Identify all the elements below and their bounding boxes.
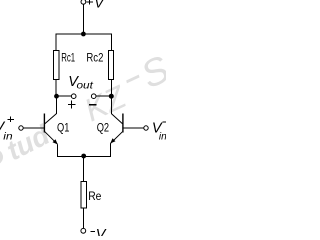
wire: Q1 base lead [23, 127, 44, 129]
junction dot emitters [81, 154, 86, 159]
label -V minus [90, 231, 95, 233]
junction dot Vout left [54, 94, 59, 99]
svg-text:Q2: Q2 [97, 123, 109, 135]
resistor Rc1 [54, 51, 59, 80]
label +V plus [87, 0, 93, 5]
wire: Q2 base lead [123, 127, 144, 129]
transistor Q1 [44, 114, 57, 145]
wire: right branch upper [111, 34, 113, 51]
terminal Vin- (right input) [144, 126, 148, 130]
wire: left branch Vout node to collector [55, 96, 57, 114]
Q1 emitter arrowhead [53, 139, 58, 144]
polarity minus (output) [89, 104, 97, 106]
wire: Q2 emitter drop [109, 144, 111, 157]
terminal +V [81, 0, 86, 4]
watermark [0, 48, 176, 180]
svg-text:V: V [96, 227, 107, 236]
wire: right branch Rc2 to Vout node [111, 80, 113, 97]
svg-text:Q1: Q1 [57, 123, 69, 135]
junction dot top [81, 32, 86, 37]
wire: Re feed [83, 157, 85, 182]
svg-text:Re: Re [88, 191, 101, 203]
resistor Rc2 [108, 51, 113, 80]
wire: Vout left lead [57, 95, 72, 97]
wire: +V feed [82, 4, 84, 34]
resistor Re [81, 182, 86, 209]
terminal -V (bottom) [81, 228, 86, 233]
terminal Vin+ (left input) [19, 126, 23, 130]
svg-text:in: in [3, 131, 13, 142]
svg-text:Rc1: Rc1 [61, 53, 75, 65]
terminal Vout right [91, 94, 96, 99]
svg-text:Rc2: Rc2 [86, 53, 103, 65]
wire: Re to -V terminal [83, 208, 85, 228]
wire: left branch upper [55, 34, 57, 51]
wire: bottom rail [57, 156, 111, 158]
wire: top rail [23, 4, 144, 228]
wire: right branch Vout node to collector [111, 96, 113, 114]
terminal Vout left [71, 94, 76, 99]
wire: Q1 emitter drop [57, 144, 59, 156]
polarity plus (output) [68, 100, 75, 108]
wire: Vout right lead [96, 95, 111, 97]
svg-text:out: out [77, 80, 95, 91]
transistor Q2 [110, 114, 123, 144]
wire: left branch Rc1 to Vout node [55, 80, 57, 97]
junction dot Vout right [109, 94, 114, 99]
Q2 emitter arrowhead [110, 138, 115, 143]
svg-text:in: in [159, 132, 166, 143]
